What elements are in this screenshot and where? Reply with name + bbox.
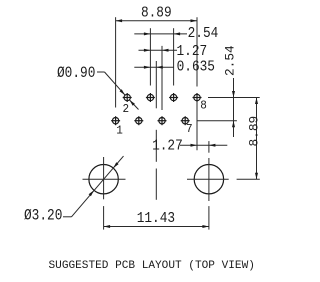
mounting hole left: [83, 157, 126, 199]
pad 6 (T3): [169, 93, 178, 102]
dimension 1.27 bottom right: [152, 139, 227, 155]
extension line pad col B1: [115, 17, 117, 107]
pad 5 (B3): [158, 116, 167, 125]
label Ø0.90 with leader to pad 2: [57, 65, 139, 110]
svg-text:7: 7: [186, 123, 193, 137]
dimension 8.89 top: [116, 6, 197, 22]
pad7 row reference line: [197, 120, 237, 122]
svg-text:8.89: 8.89: [141, 6, 172, 22]
svg-text:SUGGESTED PCB LAYOUT (TOP VIEW: SUGGESTED PCB LAYOUT (TOP VIEW): [49, 260, 255, 272]
svg-text:Ø0.90: Ø0.90: [57, 65, 95, 82]
pad 8 (T4): [193, 93, 207, 112]
hole row reference dash right: [237, 178, 260, 180]
pad 4 (T2): [146, 93, 155, 102]
svg-text:8: 8: [200, 99, 207, 113]
svg-text:0.635: 0.635: [177, 60, 215, 76]
extension line pad col T3: [173, 28, 175, 85]
dimension 1.27 top: [139, 44, 208, 60]
dimension 0.635 top: [134, 60, 215, 76]
svg-text:1.27: 1.27: [177, 44, 208, 60]
svg-text:2: 2: [123, 103, 130, 117]
pad8 row reference line: [208, 97, 260, 99]
extension line pad col B3: [161, 46, 163, 110]
dimension 8.89 right vertical: [246, 98, 261, 180]
svg-text:11.43: 11.43: [137, 211, 175, 227]
dimension 11.43 bottom: [104, 206, 209, 230]
svg-text:2.54: 2.54: [223, 45, 238, 76]
extension line pad col T4 lower: [196, 102, 198, 151]
mounting hole right: [187, 141, 229, 201]
svg-text:2.54: 2.54: [188, 27, 219, 43]
svg-text:1.27: 1.27: [152, 139, 183, 155]
svg-text:Ø3.20: Ø3.20: [24, 208, 62, 225]
label Ø3.20 with leader through left hole: [24, 156, 124, 225]
dimension 2.54 right vertical: [223, 45, 238, 137]
extension line pad col T4 upper: [196, 17, 198, 86]
dimension 2.54 top: [134, 27, 218, 43]
pad 7 (B4): [181, 116, 193, 136]
pad 1 (B1): [111, 116, 123, 138]
part vertical centerline: [155, 61, 157, 200]
pad 3 (B2): [134, 116, 143, 125]
svg-text:1: 1: [116, 124, 123, 138]
svg-text:8.89: 8.89: [246, 116, 261, 147]
extension line pad col T2: [149, 28, 151, 85]
pad 2 (T1): [123, 93, 132, 116]
